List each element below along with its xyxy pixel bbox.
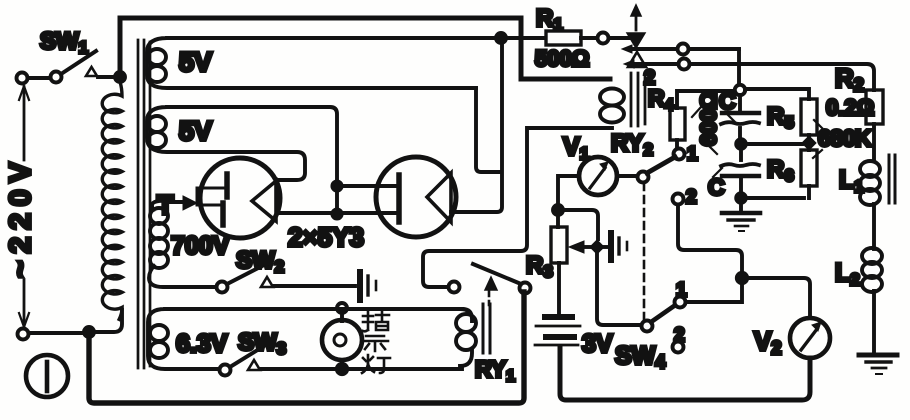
svg-text:SW4: SW4 <box>615 342 665 372</box>
switch SW3 <box>220 365 231 376</box>
indicator lamp <box>337 303 347 313</box>
node: R1 output terminal <box>598 33 609 44</box>
capacitor C (upper) <box>722 111 759 115</box>
meter V1 <box>579 157 617 195</box>
capacitor C (lower) <box>721 164 759 166</box>
relay RY2 moving contact (position arrow) <box>635 15 638 30</box>
resistor R1 <box>546 31 581 45</box>
tube V1a filament <box>223 174 227 225</box>
relay RY1 coil <box>460 309 472 366</box>
wire: L1 to L2 <box>872 204 876 249</box>
inductor L2 <box>862 248 882 264</box>
svg-text:680K: 680K <box>818 125 872 151</box>
svg-text:2×5Y3: 2×5Y3 <box>288 222 364 252</box>
switch SW4 <box>642 321 653 332</box>
relay RY1 core <box>483 304 490 353</box>
svg-text:SW3: SW3 <box>238 329 286 358</box>
node: selector contact 1 <box>674 149 685 160</box>
node: fixed contact 1 <box>678 44 689 55</box>
~220V annotation arrow line <box>19 86 29 327</box>
svg-text:V2: V2 <box>754 326 781 358</box>
svg-text:L2: L2 <box>835 259 860 289</box>
svg-text:C: C <box>708 174 725 200</box>
svg-text:RY1: RY1 <box>475 356 515 385</box>
junction: 5V#2 top to tube V1b upper filament <box>332 181 341 190</box>
meter V2 <box>790 318 830 358</box>
wire: fixed contact 1 down to C bank <box>737 49 741 84</box>
tube V1a (5Y3) envelope <box>200 158 280 238</box>
svg-text:V1: V1 <box>563 133 589 163</box>
wire: SW4 contact 1 to V2 node <box>686 283 742 302</box>
inductor L1 core <box>889 155 895 203</box>
svg-text:2: 2 <box>686 187 697 208</box>
junction: mains bottom <box>84 327 94 337</box>
relay RY1 contact <box>449 282 460 293</box>
relay RY1 armature link (dashed) <box>488 291 491 305</box>
node: C bank top junction <box>735 85 745 95</box>
junction: C bank bottom <box>736 193 746 203</box>
junction: R5/R6 node <box>802 136 816 150</box>
label lamp (Chinese) <box>362 311 390 373</box>
svg-text:1: 1 <box>687 144 698 165</box>
svg-text:RY2: RY2 <box>611 130 653 159</box>
svg-text:3V: 3V <box>582 330 613 358</box>
node: SW4 contact 2 <box>673 342 684 353</box>
node: selector contact 2 <box>673 194 684 205</box>
tube V1b filament <box>396 175 402 222</box>
resistor R6 <box>801 150 817 186</box>
svg-text:R3: R3 <box>526 252 553 281</box>
winding 5V #2 (loop) <box>147 107 337 210</box>
node: fixed contact 2 <box>679 59 690 70</box>
winding 700V <box>150 208 168 224</box>
svg-text:500Ω: 500Ω <box>535 46 589 71</box>
svg-text:5V: 5V <box>179 47 212 77</box>
svg-text:SW2: SW2 <box>236 247 284 276</box>
battery 3V <box>545 314 572 320</box>
node: mains terminal top <box>17 73 28 84</box>
junction: between capacitors <box>736 139 746 149</box>
svg-text:~220V: ~220V <box>4 155 37 278</box>
junction: R1 left node <box>496 33 506 43</box>
wire: V1 right to selector pivot <box>617 174 637 178</box>
svg-text:SW1: SW1 <box>40 28 88 57</box>
junction: wiper node <box>590 240 604 254</box>
switch SW2 <box>217 282 228 293</box>
resistor R4 <box>670 108 685 140</box>
R3 wiper arrow <box>584 245 591 249</box>
wire: contact 2 down to V2 node <box>678 205 742 272</box>
wire: contact to fixed point 1 <box>631 47 677 51</box>
wire: to tube V1b upper filament <box>337 184 396 188</box>
winding 5V #1 (loop) <box>147 38 544 88</box>
resistor R3 (rheostat) <box>551 227 567 263</box>
wire: tube V1b anode riser to R1 <box>451 38 502 212</box>
svg-text:R1: R1 <box>536 5 563 34</box>
svg-text:5V: 5V <box>179 116 212 146</box>
node: SW4 contact 1 <box>675 297 686 308</box>
svg-text:0.2Ω: 0.2Ω <box>826 95 874 120</box>
figure number (1) <box>26 355 68 397</box>
wire: top supply rail <box>120 18 610 79</box>
svg-text:2: 2 <box>674 325 685 346</box>
junction: SW1 to transformer <box>115 72 125 82</box>
wire: tube V1a anode to tube V1b cathode <box>278 211 396 215</box>
jack J2 (test plug) <box>603 245 607 249</box>
wire: node to V2 meter <box>747 278 810 317</box>
tube V1a anode <box>252 181 276 221</box>
junction: V2 node <box>737 273 747 283</box>
ground (L2) <box>859 353 897 358</box>
wire: battery minus to bottom rail to V2 <box>560 347 810 400</box>
wire: V1 left <box>558 176 579 204</box>
wire: RY2 coil bottom to RY1 contact <box>423 128 612 287</box>
resistor R2 <box>866 90 883 124</box>
wire: 5V#1 bottom riser joining anode riser <box>476 88 500 172</box>
svg-text:R5: R5 <box>767 103 794 132</box>
relay RY2 core <box>631 73 645 126</box>
wire: fixed contact 2 to R2 <box>690 64 874 90</box>
wire: wiper node down to SW4 <box>597 254 641 325</box>
winding 6.3V (loop) <box>148 309 462 369</box>
arrow: 700V feed into tube V1a <box>170 200 184 204</box>
jack J1 (SW2 output plug) <box>357 272 363 300</box>
tube V1b (5Y3) envelope <box>376 157 456 237</box>
svg-text:R4: R4 <box>648 85 674 114</box>
ground (C bank) <box>722 211 760 216</box>
resistor R5 <box>801 99 817 135</box>
svg-text:R2: R2 <box>835 63 864 95</box>
svg-text:600Ω: 600Ω <box>696 92 721 146</box>
transformer T primary winding <box>102 82 122 319</box>
node: mains terminal bottom <box>18 329 29 340</box>
svg-text:1: 1 <box>676 280 687 301</box>
tube V1b anode <box>427 173 451 222</box>
svg-text:700V: 700V <box>171 232 230 260</box>
relay RY2 coil <box>600 89 624 106</box>
wire: contact to fixed point 2 <box>633 62 678 66</box>
svg-text:R6: R6 <box>767 156 794 185</box>
wire: L2 to ground <box>872 291 876 352</box>
wire: node to wiper <box>563 210 598 239</box>
switch SW1 <box>28 51 114 83</box>
svg-text:T: T <box>157 190 174 220</box>
wire: left drop + bottom-left rail up to RY1 contact <box>89 292 524 403</box>
inductor L1 <box>860 161 880 177</box>
transformer T core <box>138 40 150 368</box>
selector (V1 side) pivot <box>638 172 649 183</box>
junction: lamp bottom <box>337 364 347 374</box>
junction: V1/R3 node <box>553 205 563 215</box>
junction: anode wire <box>332 209 341 218</box>
wire: mains bottom to transformer <box>29 310 122 333</box>
svg-text:6.3V: 6.3V <box>176 330 228 358</box>
dashed gang link V1-selector to SW4 <box>643 183 646 319</box>
